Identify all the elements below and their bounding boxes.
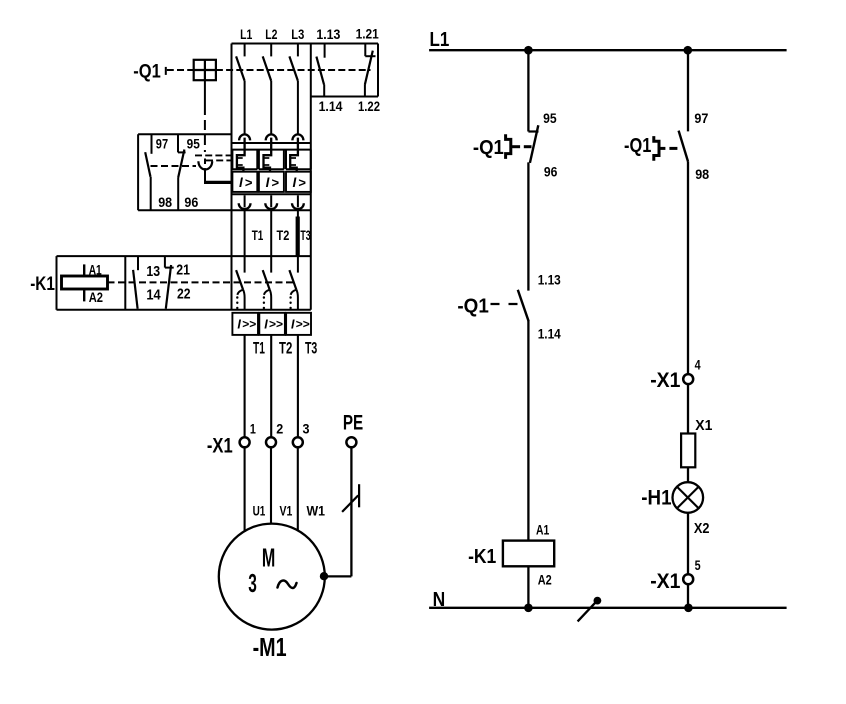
trip linkage dashed upper [195, 154, 232, 156]
motor M1 circle [219, 524, 325, 630]
svg-text:-M1: -M1 [253, 634, 287, 662]
actuator dashed link branch1 [524, 145, 532, 148]
wire branch2 seg1 [687, 50, 689, 131]
trip lever cup [198, 161, 212, 169]
Q1 actuator bracket branch1 [506, 134, 511, 159]
actuator nub branch1 [511, 145, 520, 148]
breaker pole 3 contact [289, 44, 298, 135]
wire branch2 seg3 [687, 384, 689, 434]
PE junction dot on motor [320, 572, 328, 580]
conductor T-zone pole 3 [297, 210, 299, 256]
heater cell 3 [286, 150, 311, 170]
svg-text:I: I [291, 317, 295, 331]
svg-text:-Q1: -Q1 [457, 296, 488, 318]
aux contact 21/22 NC [165, 256, 174, 309]
mechanical link dashed across poles [216, 69, 371, 71]
terminal X1:3 [293, 437, 303, 447]
svg-text:I: I [237, 317, 241, 331]
aux box bottom edge [311, 96, 378, 98]
trip linkage vertical from cross-box [204, 80, 206, 152]
conductor T-zone pole 1 [244, 210, 246, 256]
overload relay box left edge [137, 134, 139, 210]
svg-text:L3: L3 [291, 26, 304, 42]
svg-text:I: I [264, 317, 268, 331]
terminal X1:5 [683, 574, 693, 584]
trip lever tick [204, 159, 206, 165]
svg-text:-H1: -H1 [641, 485, 671, 509]
svg-text:1.13: 1.13 [538, 272, 561, 288]
svg-text:98: 98 [695, 166, 709, 182]
svg-text:22: 22 [177, 286, 191, 303]
trip lever stem [204, 168, 206, 182]
thermal overload heater 2 [264, 138, 272, 172]
overcurrent release I> box 3 [286, 172, 311, 192]
contactor trip dashed line [108, 281, 295, 283]
heater row top line [232, 149, 311, 151]
Q1 aux contact 1.13/1.14 NO [518, 290, 529, 321]
contactor coil K1 [503, 541, 554, 567]
svg-text:4: 4 [695, 356, 701, 372]
overload aux 95/96 NC contact [178, 134, 186, 210]
terminal X1:2 [266, 437, 276, 447]
junction N/branch1 [524, 604, 533, 613]
svg-text:-Q1: -Q1 [133, 60, 161, 82]
motor AC tilde [278, 581, 297, 588]
release arc pole 1 [239, 195, 251, 209]
heater cell 1 [232, 150, 257, 170]
svg-text:I: I [293, 175, 297, 190]
wire pole 2 to terminal [270, 335, 272, 438]
breaker pole 2 contact [263, 44, 272, 135]
bold marker on T3 conductor [296, 217, 300, 256]
svg-text:97: 97 [156, 136, 168, 151]
actuator nub branch2 [659, 147, 665, 150]
actuator dashed link 1.13 [491, 303, 522, 305]
rail N [429, 607, 786, 609]
wire branch1 seg3 [527, 321, 529, 541]
svg-text:A2: A2 [538, 571, 552, 587]
svg-text:96: 96 [544, 163, 558, 179]
divider line above heaters [232, 142, 311, 144]
N conductor slash mark [578, 602, 597, 622]
contactor main contact pole 1 [236, 256, 245, 310]
svg-text:1.14: 1.14 [538, 325, 561, 341]
junction N/branch2 [684, 604, 693, 613]
svg-text:L1: L1 [240, 26, 252, 42]
svg-text:2: 2 [276, 421, 283, 437]
svg-text:1.13: 1.13 [316, 26, 340, 42]
wire pole 3 to terminal [297, 335, 299, 438]
wire terminal 1 to motor U1 [244, 447, 246, 532]
trip bar thick [204, 181, 232, 184]
lamp element box [681, 434, 695, 468]
overload trip dashed line [151, 165, 197, 167]
svg-text:-X1: -X1 [650, 368, 680, 392]
svg-text:3: 3 [303, 421, 310, 437]
junction L1/branch1 [524, 46, 533, 55]
svg-text:-K1: -K1 [30, 273, 55, 295]
N slash dot [594, 597, 602, 605]
svg-text:L2: L2 [265, 26, 277, 42]
overload aux 97/98 NO contact [145, 134, 151, 210]
Q1 aux contact 95/96 NC [528, 125, 538, 163]
svg-text:T3: T3 [305, 340, 317, 358]
overload relay box top edge [138, 133, 231, 135]
svg-text:97: 97 [694, 110, 708, 126]
breaker frame top edge [232, 43, 379, 45]
conductor T-zone pole 2 [270, 210, 272, 256]
svg-text:>: > [298, 175, 306, 190]
mechanical link dashed Q1 to cross-box [167, 69, 194, 71]
svg-text:U1: U1 [253, 503, 266, 518]
svg-text:5: 5 [695, 557, 701, 573]
svg-text:T1: T1 [252, 227, 264, 243]
svg-text:W1: W1 [307, 503, 326, 518]
overload relay box bottom edge [138, 209, 311, 211]
svg-text:95: 95 [543, 110, 557, 126]
Q1 aux contact 97/98 NO [679, 131, 688, 162]
svg-text:X1: X1 [695, 418, 712, 434]
svg-text:-Q1: -Q1 [473, 137, 504, 159]
svg-text:>>: >> [242, 317, 256, 331]
wire branch1 seg4 [527, 566, 529, 608]
indicator lamp H1 [673, 482, 704, 513]
svg-text:14: 14 [146, 286, 161, 303]
wire branch2 seg2 [687, 162, 689, 375]
overcurrent release I> box 1 [232, 172, 257, 192]
short-circuit release I>> box 1 [232, 313, 258, 335]
release arc pole 3 [292, 195, 304, 209]
aux contact 13/14 NO [133, 256, 138, 309]
wire branch1 seg2 [527, 162, 529, 290]
rail L1 [429, 49, 786, 51]
PE wire vertical [350, 447, 352, 576]
aux box right edge [377, 44, 379, 97]
svg-text:-X1: -X1 [650, 569, 680, 593]
svg-text:PE: PE [343, 411, 363, 434]
svg-text:21: 21 [176, 262, 190, 279]
thermal overload heater 1 [237, 138, 245, 172]
svg-text:V1: V1 [280, 503, 293, 518]
thermal element arc pole 2 [266, 134, 277, 140]
PE wire horizontal to motor [324, 575, 351, 577]
wire branch2 seg4 [687, 467, 689, 482]
wire branch2 seg6 [687, 584, 689, 608]
wire terminal 3 to motor W1 [297, 447, 299, 531]
svg-text:>: > [245, 175, 253, 190]
heater cell 2 [259, 150, 284, 170]
aux contact 1.13/1.14 NO [316, 44, 324, 97]
actuator dashed link branch2 [669, 147, 677, 150]
contactor main contact pole 3 [289, 256, 298, 310]
svg-text:-Q1: -Q1 [624, 135, 651, 157]
svg-text:1.22: 1.22 [358, 98, 380, 114]
wire pole 1 to terminal [244, 335, 246, 438]
svg-text:>>: >> [269, 317, 283, 331]
contactor main contact pole 2 [263, 256, 272, 310]
svg-text:13: 13 [146, 263, 160, 280]
svg-text:M: M [262, 544, 275, 572]
svg-text:L1: L1 [430, 29, 450, 51]
overcurrent release I> box 2 [259, 172, 284, 192]
svg-text:-K1: -K1 [468, 546, 496, 568]
svg-text:>: > [272, 175, 280, 190]
svg-text:95: 95 [187, 136, 201, 151]
contactor K1 coil [62, 264, 108, 301]
contactor K1 box [57, 256, 311, 310]
breaker frame divider edge [310, 44, 312, 310]
svg-text:T2: T2 [277, 227, 290, 243]
svg-text:98: 98 [158, 195, 172, 210]
wire branch2 seg5 [687, 513, 689, 575]
trip linkage dashed lower [206, 159, 232, 161]
short-circuit release I>> box 2 [259, 313, 285, 335]
breaker pole 1 contact [236, 44, 245, 135]
svg-text:I: I [239, 175, 243, 190]
svg-text:96: 96 [184, 195, 198, 210]
breaker frame left edge [231, 44, 233, 310]
svg-text:3: 3 [248, 570, 257, 598]
svg-text:I: I [266, 175, 270, 190]
thermal element arc pole 1 [239, 134, 250, 140]
junction L1/branch2 [684, 46, 693, 55]
wire branch1 seg1 [527, 50, 529, 131]
svg-text:T3: T3 [300, 227, 310, 243]
breaker Q1 operator cross-box [194, 60, 216, 80]
Q1 actuator bracket branch2 [654, 136, 659, 161]
svg-text:T1: T1 [253, 340, 265, 358]
svg-text:A2: A2 [89, 289, 103, 305]
terminal X1:4 [683, 374, 693, 384]
thermal overload heater 3 [290, 138, 298, 172]
svg-text:T2: T2 [279, 340, 292, 358]
short-circuit release I>> box 3 [286, 313, 311, 335]
PE marking slash [342, 484, 359, 512]
thermal element arc pole 3 [292, 134, 303, 140]
wire terminal 2 to motor V1 [270, 447, 272, 524]
svg-text:1: 1 [250, 421, 256, 437]
terminal PE [346, 437, 356, 447]
svg-text:A1: A1 [89, 262, 102, 278]
svg-text:N: N [433, 589, 446, 611]
terminal X1:1 [240, 437, 250, 447]
svg-text:A1: A1 [536, 522, 549, 538]
svg-text:1.21: 1.21 [356, 26, 379, 42]
aux contact 1.21/1.22 NC [365, 44, 376, 97]
breaker Q1 actuator tick [165, 67, 167, 75]
divider line below I> boxes [232, 193, 311, 195]
release arc pole 2 [265, 195, 277, 209]
svg-text:X2: X2 [694, 521, 710, 537]
svg-text:-X1: -X1 [207, 434, 233, 458]
svg-text:>>: >> [296, 317, 310, 331]
svg-text:1.14: 1.14 [319, 98, 343, 114]
